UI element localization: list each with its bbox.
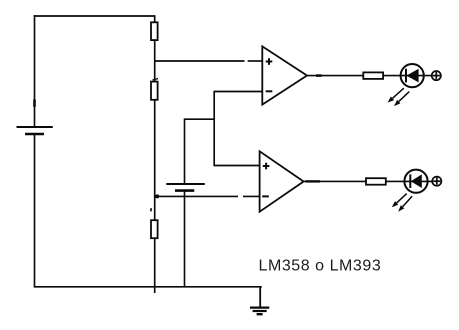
wire: B2 negative lead down to ground rail	[184, 191, 186, 287]
wire: ground rail along bottom	[34, 286, 262, 288]
resistor R4	[363, 72, 383, 79]
wire: battery B1 positive lead up to top rail	[34, 15, 36, 127]
wire: U1 output to R4	[307, 75, 364, 77]
label: LM358 o LM393	[259, 258, 382, 275]
wire: B2 top over to reference bus	[185, 118, 215, 120]
wire: U2 output to R5	[304, 180, 367, 182]
resistor R2	[151, 79, 158, 100]
battery B1	[17, 100, 53, 135]
wire: divider tap node to U1 non-inverting input	[155, 60, 263, 62]
LED D2	[404, 170, 427, 193]
wire: R3 bottom through ground rail (overshoot)	[154, 238, 156, 293]
wire: reference bus to U1 inverting input	[214, 91, 262, 93]
wire: R5 to LED D2 and through to supply	[386, 180, 433, 182]
light arrows D1	[388, 88, 410, 106]
light arrows D2	[392, 194, 412, 212]
wire: R1 bottom to R2 top	[154, 40, 156, 82]
wire: node to U2 inverting input	[155, 195, 260, 197]
battery B2 (reference)	[166, 184, 205, 191]
op-amp U1	[262, 46, 307, 104]
wire: reference bus vertical	[213, 91, 215, 167]
svg-text:LM358 o LM393: LM358 o LM393	[259, 258, 382, 275]
wire: top rail from B1 to divider	[34, 15, 155, 17]
resistor R5	[366, 178, 386, 185]
junction: node between R2 and R3 feeding U2 inverting input	[155, 194, 159, 198]
wire: R4 to LED D1 and through to supply	[383, 75, 432, 77]
wire: B1 negative lead down to ground rail	[34, 134, 36, 287]
ground	[250, 287, 269, 314]
wire: R2 bottom to R3 top	[154, 100, 156, 221]
resistor R3	[151, 208, 158, 238]
power +V supply for D1	[432, 71, 441, 80]
wire: B2 positive lead up	[184, 118, 186, 184]
wire: reference bus to U2 non-inverting input	[214, 165, 259, 167]
LED D1	[401, 64, 424, 87]
resistor R1	[151, 22, 158, 40]
op-amp U2	[260, 151, 304, 211]
power +V supply for D2	[432, 177, 441, 186]
wire: top rail drop into R1	[154, 15, 156, 22]
